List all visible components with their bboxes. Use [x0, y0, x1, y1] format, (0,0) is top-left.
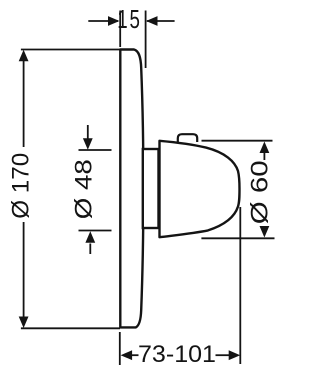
dim 15: left extension line	[119, 11, 121, 48]
dim 170: bottom extension line	[21, 327, 120, 329]
dim 73-101: right extension line	[239, 207, 241, 364]
dim 15: left leader line	[88, 20, 118, 22]
dim 170: dimension line lower segment	[23, 222, 25, 317]
dim 170: dimension line upper segment	[23, 60, 25, 147]
tab on top of knob	[178, 134, 197, 143]
dim 170: top arrowhead	[19, 50, 29, 62]
svg-text:73-101: 73-101	[138, 341, 216, 368]
dim 48: top tick	[79, 149, 112, 151]
dim 15: right arrowhead	[146, 16, 158, 26]
dim 170: top extension line	[21, 49, 120, 51]
dim 60: top arrowhead	[260, 142, 270, 154]
dim 15: left arrowhead	[108, 16, 120, 26]
dim 73-101: right arrowhead	[229, 350, 241, 360]
dim 60: bottom extension line	[201, 237, 274, 239]
svg-text:15: 15	[117, 4, 141, 34]
escutcheon plate (side profile)	[120, 50, 143, 328]
dim 73-101: right leader segment	[216, 354, 230, 356]
dim 73-101: left extension line	[119, 332, 121, 365]
dim 48: top arrow stem	[87, 125, 89, 140]
dim 60: top extension line	[202, 140, 273, 142]
dim 48: bottom tick	[79, 230, 112, 232]
dim 15: right leader line	[147, 20, 175, 22]
svg-text:Ø 48: Ø 48	[71, 159, 98, 219]
svg-text:Ø 60: Ø 60	[247, 160, 274, 224]
dim 73-101: left leader segment	[131, 354, 139, 356]
dim 15: right extension line	[145, 11, 147, 69]
dim 48: bottom arrow stem	[89, 244, 91, 255]
collar between plate and knob	[143, 149, 159, 228]
dim 60: bottom arrowhead	[260, 226, 270, 238]
dim 170: bottom arrowhead	[19, 317, 29, 329]
dim 48: bottom arrowhead	[85, 231, 95, 243]
dim 60: top arrow stem	[263, 153, 265, 161]
dim 73-101: left arrowhead	[121, 350, 133, 360]
svg-text:Ø 170: Ø 170	[8, 153, 35, 219]
dim 48: top arrowhead	[83, 138, 93, 150]
knob body	[160, 141, 240, 237]
